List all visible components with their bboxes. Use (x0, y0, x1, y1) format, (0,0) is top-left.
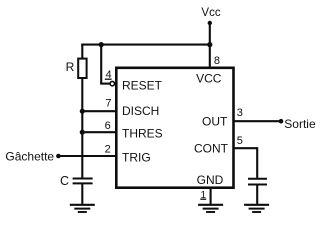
svg-text:6: 6 (105, 120, 111, 132)
wire OUT pin 3 to Sortie (234, 120, 281, 122)
capacitor C (73, 179, 93, 184)
resistor R (78, 59, 86, 78)
svg-text:TRIG: TRIG (122, 150, 151, 164)
wire DISCH pin 7 (82, 110, 116, 112)
ground (left, under C) (70, 205, 95, 212)
wire Vcc vertical to pin 8 (209, 23, 211, 67)
pin 4 open circle (110, 81, 114, 85)
svg-text:3: 3 (237, 107, 243, 119)
svg-text:5: 5 (237, 135, 243, 147)
ground (middle, pin 1) (198, 205, 223, 212)
junction top rail / pin4 branch (99, 42, 104, 47)
pin number 1 (200, 190, 206, 201)
svg-text:Gâchette: Gâchette (5, 149, 54, 163)
node Gachette terminal dot (56, 154, 61, 159)
svg-text:THRES: THRES (122, 126, 163, 140)
wire CONT pin 5 horizontal (234, 147, 257, 149)
capacitor on CONT (248, 179, 267, 185)
ground (right, under CONT capacitor) (244, 205, 269, 212)
wire CONT vertical to capacitor (256, 147, 258, 178)
junction left rail / pin7 wire (80, 109, 85, 114)
svg-text:2: 2 (105, 143, 111, 155)
svg-text:CONT: CONT (194, 142, 229, 156)
svg-text:Sortie: Sortie (284, 117, 316, 131)
svg-text:R: R (66, 60, 75, 74)
wire top rail from R to Vcc line (81, 44, 211, 46)
wire C to ground (81, 183, 83, 204)
node Vcc terminal dot (208, 21, 212, 25)
svg-text:RESET: RESET (122, 79, 163, 93)
IC U1 555 body (116, 68, 233, 188)
svg-text:C: C (60, 174, 69, 188)
node Sortie terminal dot (279, 119, 284, 124)
wire THRES pin 6 (82, 131, 116, 133)
svg-text:8: 8 (214, 55, 220, 67)
svg-text:7: 7 (105, 97, 111, 109)
junction Vcc / top rail (207, 42, 212, 47)
wire pin4 branch vertical (100, 45, 102, 84)
svg-text:Vcc: Vcc (201, 7, 220, 19)
wire TRIG pin 2 from Gachette (58, 155, 116, 157)
wire R top (81, 44, 83, 59)
junction left rail / pin6 wire (80, 130, 85, 135)
svg-text:GND: GND (197, 173, 224, 187)
wire pin4 branch horizontal (100, 83, 110, 85)
svg-text:OUT: OUT (202, 114, 228, 128)
wire left rail below R (81, 78, 83, 178)
svg-text:VCC: VCC (196, 71, 222, 85)
wire CONT capacitor to ground (256, 185, 258, 204)
svg-text:DISCH: DISCH (122, 104, 159, 118)
pin number 4 (105, 69, 112, 81)
wire GND pin 1 (210, 188, 212, 204)
